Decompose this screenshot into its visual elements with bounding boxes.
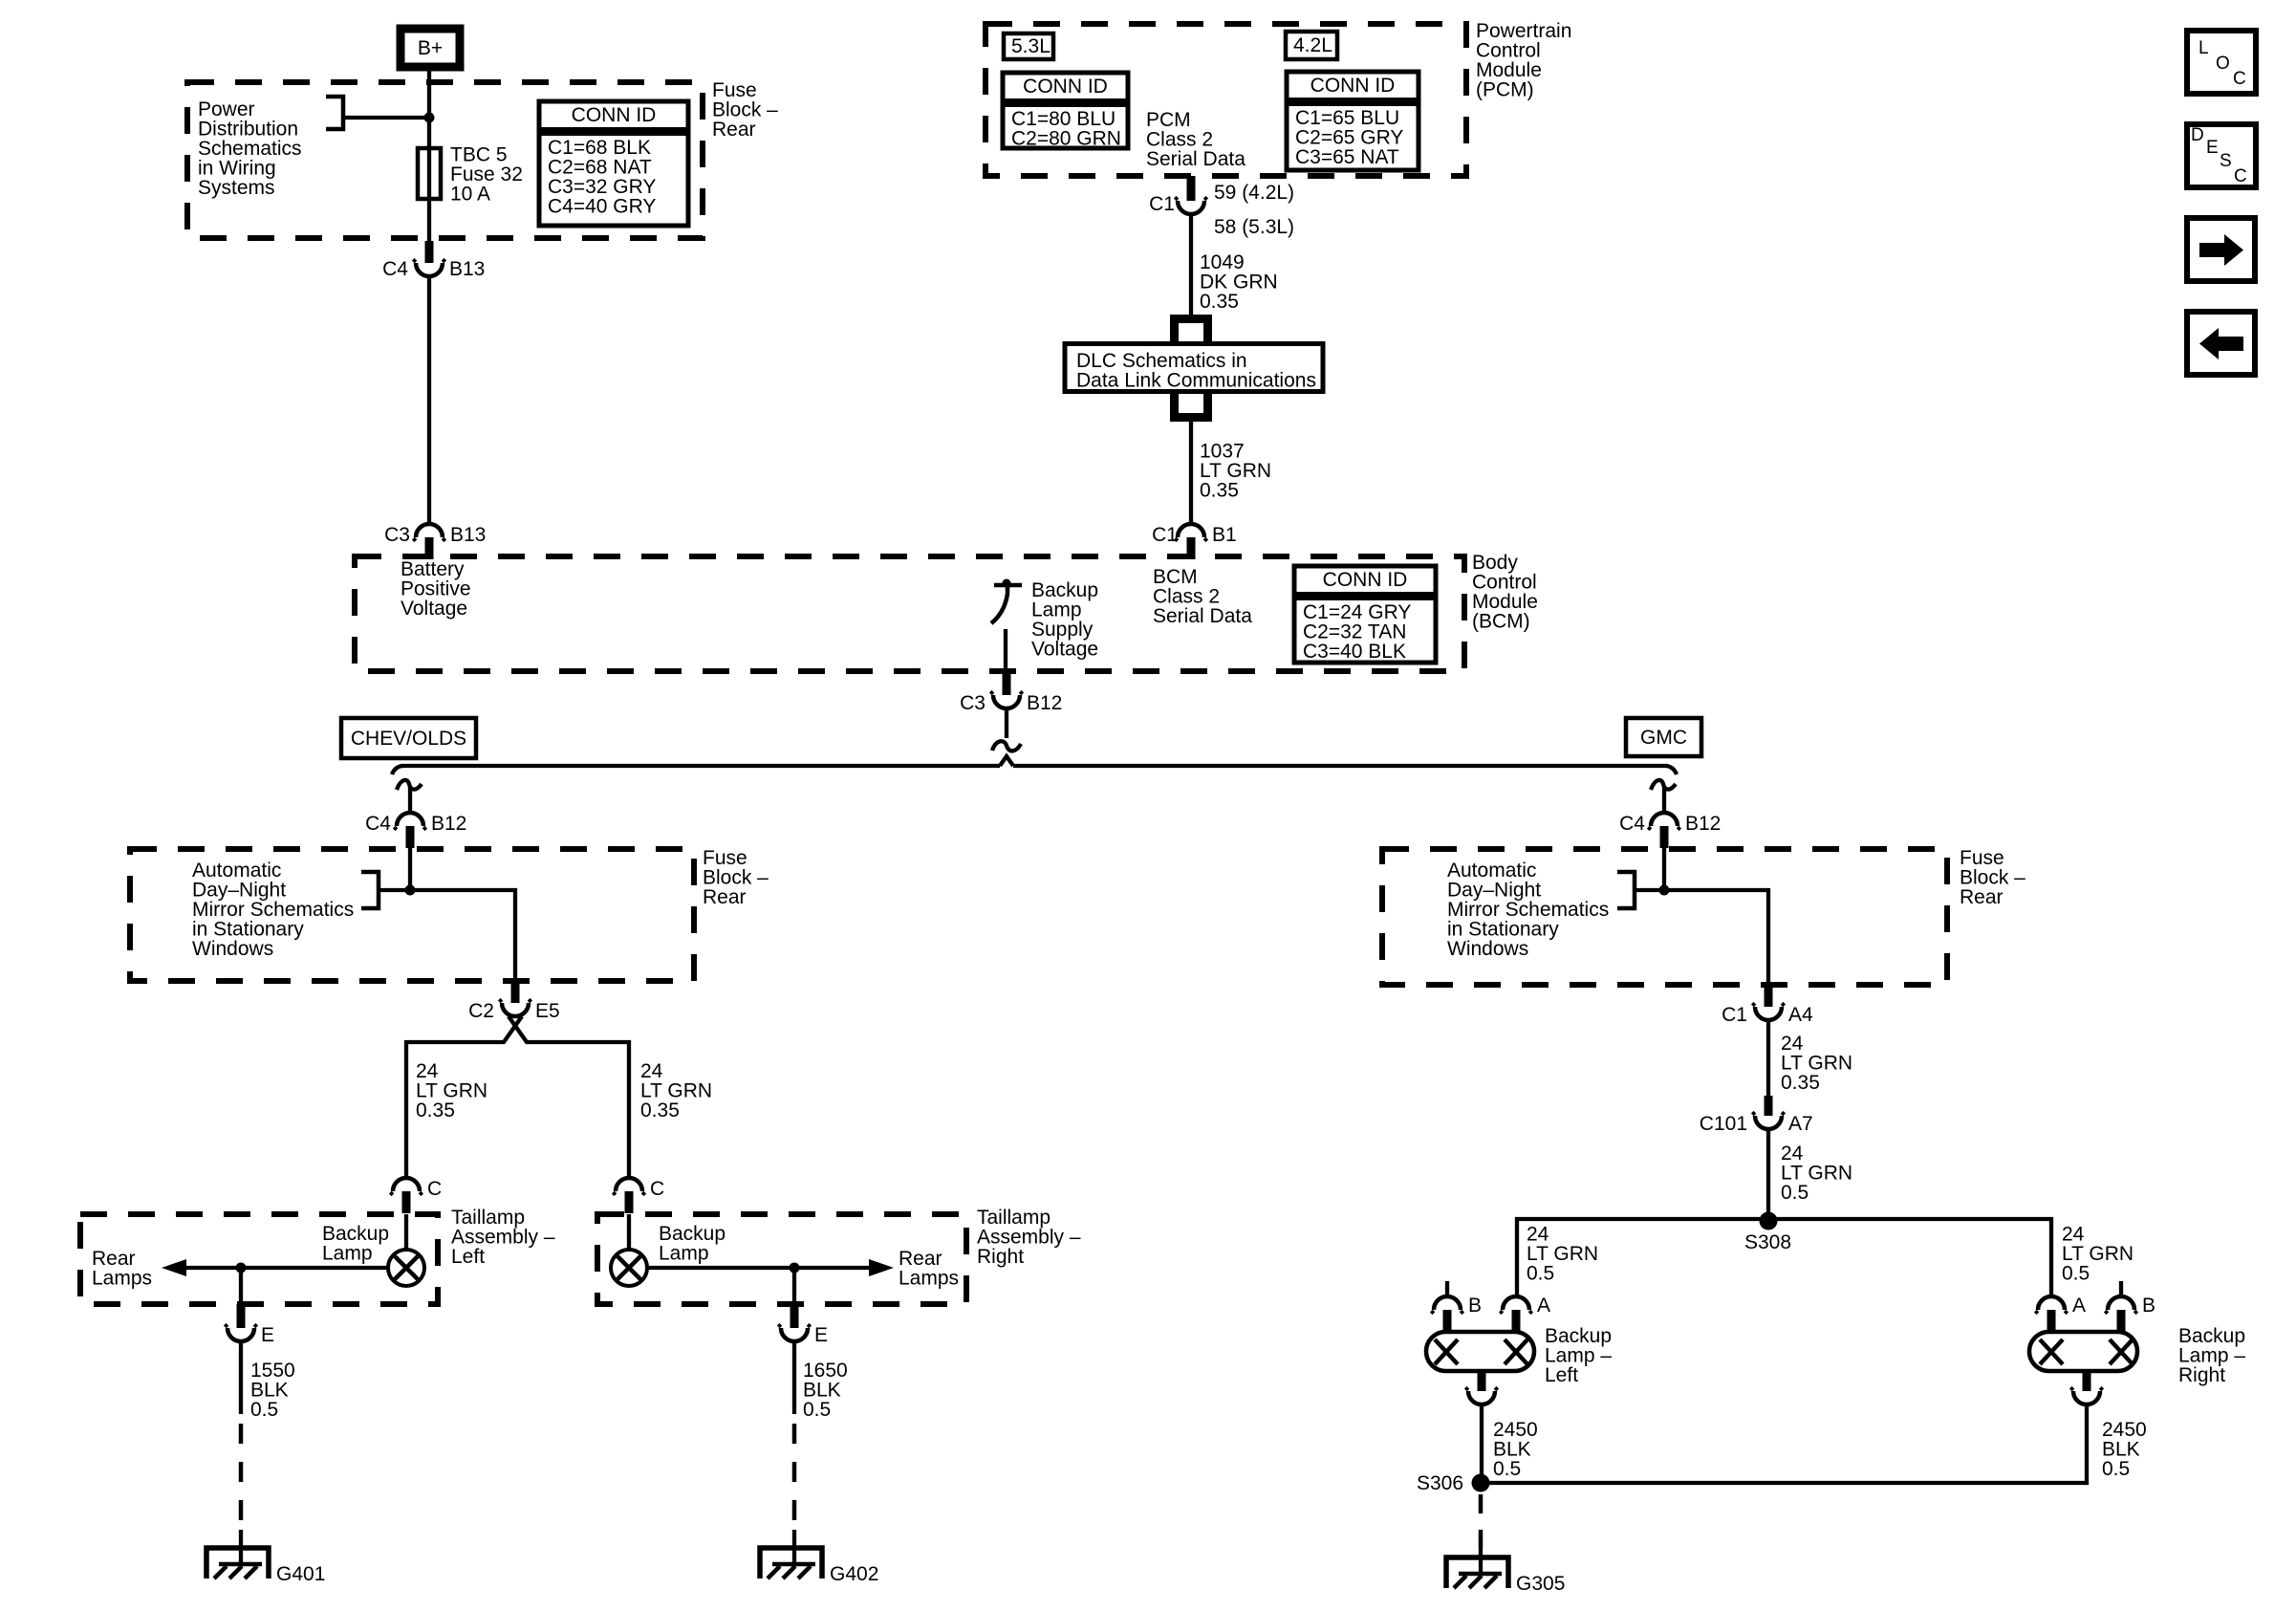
label 24 LT GRN 0.35 (left lamp) [416,1060,487,1121]
CONN ID table fuse block rear [539,101,688,226]
label TBC 5 Fuse 32 10 A [450,144,523,206]
label Body Control Module (BCM) [1472,552,1538,633]
svg-text:Rear: Rear [1960,886,2004,908]
svg-text:B12: B12 [1027,692,1062,714]
wire 1650 solid [792,1341,796,1414]
label BCM Class 2 Serial Data [1153,566,1252,627]
icon LOC [2187,31,2256,94]
label Fuse Block Rear (GMC) [1960,847,2025,908]
label 24 LT GRN 0.35 (GMC) [1781,1033,1852,1094]
label 1650 BLK 0.5 [803,1360,848,1421]
connector C101-A7 cup [1755,1116,1782,1129]
arrow to rear lamps (left) [162,1259,186,1276]
wire DLC to BCM [1189,422,1193,524]
svg-text:0.5: 0.5 [1527,1263,1554,1285]
node junction GMC fuse block [1659,885,1670,896]
svg-text:CONN ID: CONN ID [572,104,657,126]
wire split crossover right [509,1016,629,1178]
wire junction to E connector [239,1268,243,1304]
dashed box: Body Control Module BCM [355,556,1464,671]
svg-text:0.5: 0.5 [1781,1182,1809,1204]
wire curl to C4-B12 (GMC) [1662,787,1666,813]
svg-text:Systems: Systems [198,177,275,199]
connector C1-A4 cup [1755,1007,1782,1020]
wire 1550 dashed to ground [239,1424,244,1530]
connector pin A right lamp cap [2038,1296,2065,1310]
label 1550 BLK 0.5 [250,1360,295,1421]
connector C right cap [616,1178,642,1191]
svg-text:Lamp: Lamp [659,1243,709,1265]
svg-text:Voltage: Voltage [1031,639,1098,661]
svg-text:Lamps: Lamps [92,1268,152,1290]
splice S308 dot [1760,1212,1778,1230]
connector bottom pin right lamp pin stub [2083,1371,2091,1391]
svg-text:B+: B+ [418,37,443,59]
svg-text:A: A [1537,1295,1550,1317]
connector E right cup [781,1328,808,1341]
connector C2-E5 cup [502,1003,529,1016]
label Backup Lamp (left) [322,1223,389,1265]
node junction left taillamp [236,1263,247,1274]
wire lamp to rear lamps arrow [184,1266,388,1270]
pigtail stub pin B left lamp [1445,1281,1449,1296]
label Taillamp Assembly - Right [977,1207,1081,1268]
connector C4-B12 CHEV pin stub [406,826,415,848]
bracket mirror note (GMC) [1617,872,1635,908]
connector pin B right lamp cap [2108,1296,2134,1310]
wire 1550 solid [239,1341,243,1414]
svg-text:C2: C2 [468,1000,494,1022]
connector C4-B13 pin stub [425,241,434,263]
wire split crossover left [406,1016,522,1178]
svg-text:0.35: 0.35 [416,1099,455,1121]
svg-text:0.5: 0.5 [2102,1458,2130,1480]
backup lamp left GMC (dual bulb) [1426,1332,1534,1371]
connector C1-B1 pin stub [1187,537,1196,559]
svg-text:Left: Left [1545,1364,1578,1386]
svg-text:0.5: 0.5 [1493,1458,1521,1480]
svg-text:CONN ID: CONN ID [1323,569,1408,591]
label Automatic Day-Night Mirror (GMC) [1447,860,1609,960]
svg-text:B: B [2142,1295,2155,1317]
arrow to rear lamps (right) [869,1259,894,1276]
wire C4-B12 into fuse block (CHEV) [408,847,412,890]
wire end curl above brace [992,741,1021,751]
wire C into left backup lamp [404,1214,408,1251]
wire A7 to S308 [1766,1129,1770,1221]
label Backup Lamp (right) [659,1223,726,1265]
connector bottom pin right lamp cup [2073,1391,2100,1404]
wire into G402 [792,1530,796,1565]
label 24 LT GRN 0.35 (right lamp) [640,1060,712,1121]
svg-text:10 A: 10 A [450,184,490,206]
connector C4-B12 GMC cap [1651,813,1678,826]
ground G402 [760,1548,822,1578]
wire switch to C3-B12 [1004,629,1007,672]
switch backup lamp output inside BCM [991,579,1022,624]
wire S306 dashed to G305 [1479,1494,1484,1554]
svg-text:CONN ID: CONN ID [1310,75,1396,97]
dashed box: Taillamp Assembly Right [597,1214,966,1304]
svg-text:B13: B13 [449,258,485,280]
dashed box: Fuse Block Rear CHEV [130,849,694,981]
connector C left cap [393,1178,420,1191]
svg-text:C3: C3 [960,692,986,714]
svg-text:C1: C1 [1149,193,1175,215]
CHEV/OLDS variant box [341,718,476,758]
connector C1 PCM cup [1178,201,1204,214]
svg-text:L: L [2199,38,2209,58]
svg-text:E: E [814,1324,828,1346]
svg-text:B1: B1 [1212,524,1237,546]
connector C3-B13 pin stub [425,537,434,559]
splice S308 wire [1517,1219,2051,1296]
svg-text:S: S [2220,151,2232,171]
wire A4 to C101 [1766,1020,1770,1096]
svg-text:G402: G402 [830,1563,878,1585]
splice S306 dot [1472,1474,1490,1492]
label Battery Positive Voltage [401,558,471,620]
connector E left pin stub [237,1304,246,1328]
connector pin B left lamp cap [1434,1296,1461,1310]
svg-text:C: C [2233,69,2246,89]
connector C3-B12 pin stub [1003,672,1011,695]
connector C3-B13 cap [416,524,443,537]
svg-text:0.5: 0.5 [2062,1263,2090,1285]
connector C4-B13 cup [416,263,443,276]
label 2450 BLK 0.5 (left) [1493,1419,1538,1480]
svg-text:E5: E5 [535,1000,560,1022]
svg-text:G305: G305 [1516,1573,1565,1595]
svg-text:C: C [2234,166,2247,186]
connector pin B left lamp pin stub [1443,1310,1452,1332]
CONN ID table 5.3L [1003,73,1128,150]
svg-text:Rear: Rear [703,886,747,908]
wire lamp to rear lamps arrow (right) [647,1266,871,1270]
connector C1-B1 cap [1178,524,1204,537]
wire into G401 [239,1530,243,1565]
svg-text:C: C [650,1178,664,1200]
svg-text:C: C [427,1178,442,1200]
dashed box: Power Distribution fuse block rear [187,82,703,238]
icon arrow back [2187,312,2255,375]
node junction CHEV fuse block [405,885,416,896]
dashed box: Taillamp Assembly Left [80,1214,438,1304]
fuse TBC 5 Fuse 32 10A [418,148,441,241]
dashed box: Fuse Block Rear GMC [1382,849,1947,985]
svg-text:C3=40 BLK: C3=40 BLK [1303,641,1406,663]
svg-text:0.35: 0.35 [1200,291,1239,313]
label 24 LT GRN 0.5 (S308 right) [2062,1224,2134,1285]
wire B+ to fuse block [427,71,431,148]
svg-text:Data Link Communications: Data Link Communications [1076,370,1316,392]
wire C4-B12 into fuse block (GMC) [1662,847,1666,890]
svg-text:Serial Data: Serial Data [1153,605,1252,627]
icon arrow next [2187,218,2255,281]
svg-text:CHEV/OLDS: CHEV/OLDS [351,728,466,750]
svg-text:C2=80 GRN: C2=80 GRN [1011,128,1121,150]
svg-text:C4: C4 [1619,813,1645,835]
svg-text:Lamps: Lamps [899,1268,959,1290]
svg-text:C4: C4 [365,813,391,835]
label Power Distribution Schematics in Wiring Systems [198,98,302,199]
brace split wire CHEV/GMC [392,756,1677,774]
svg-text:Rear: Rear [712,119,756,141]
connector C4-B12 CHEV cap [397,813,423,826]
svg-text:S306: S306 [1417,1472,1463,1494]
5.3L tag box [1004,33,1053,59]
svg-text:C101: C101 [1700,1113,1747,1135]
svg-text:4.2L: 4.2L [1293,34,1332,56]
label Fuse Block Rear (top) [712,79,778,141]
label Powertrain Control Module (PCM) [1476,20,1571,101]
svg-text:59 (4.2L): 59 (4.2L) [1214,182,1294,204]
svg-text:C4=40 GRY: C4=40 GRY [548,196,656,218]
connector pin A left lamp pin stub [1512,1310,1521,1332]
wire bracket to node (CHEV) [379,888,410,892]
wire node to C1 drop (GMC) [1664,890,1768,985]
connector E left cup [227,1328,254,1341]
svg-text:C3=65 NAT: C3=65 NAT [1295,146,1399,168]
svg-text:0.35: 0.35 [1200,480,1239,502]
label Backup Lamp - Right [2178,1325,2245,1386]
svg-text:0.5: 0.5 [250,1399,278,1421]
label 1049 DK GRN 0.35 [1200,251,1278,313]
wire C4-B13 to C3-B13 [427,276,431,524]
wire curl to C4-B12 (CHEV) [408,787,412,813]
connector pin A right lamp pin stub [2047,1310,2056,1332]
svg-text:S308: S308 [1744,1231,1791,1253]
connector C101-A7 pin stub [1765,1096,1773,1116]
connector C1 PCM pin stub [1187,176,1196,201]
CHEV branch pigtail curl [397,780,422,790]
icon DESC [2187,124,2256,187]
svg-text:Left: Left [451,1246,485,1268]
terminal post out of DLC box [1170,393,1212,422]
connector C4-B12 GMC pin stub [1660,826,1669,848]
svg-text:58 (5.3L): 58 (5.3L) [1214,216,1294,238]
dashed box: Powertrain Control Module PCM [986,24,1466,176]
GMC variant box [1626,718,1701,756]
connector C3-B12 cup [993,695,1020,708]
GMC branch pigtail curl [1651,780,1676,790]
label 24 LT GRN 0.5 (S308 left) [1527,1224,1598,1285]
wire into G305 [1479,1549,1483,1575]
label Rear Lamps (right) [899,1248,959,1290]
svg-text:Serial Data: Serial Data [1146,148,1245,170]
label Backup Lamp Supply Voltage [1031,579,1098,661]
splice S306 wire [1482,1404,2087,1483]
wire 1650 dashed to ground [792,1424,797,1530]
svg-text:A4: A4 [1788,1004,1813,1026]
svg-text:C1: C1 [1152,524,1178,546]
label Rear Lamps (left) [92,1248,152,1290]
CONN ID table 4.2L [1287,72,1419,170]
svg-text:A: A [2072,1295,2086,1317]
node junction right taillamp [790,1263,800,1274]
svg-text:B12: B12 [1685,813,1721,835]
svg-text:Windows: Windows [1447,938,1528,960]
wire bracket to node (GMC) [1635,888,1664,892]
connector bottom pin left lamp cup [1468,1391,1495,1404]
svg-text:Voltage: Voltage [401,598,467,620]
svg-text:0.35: 0.35 [1781,1072,1820,1094]
bracket mirror note (CHEV) [361,872,379,908]
svg-text:E: E [2206,138,2219,158]
label PCM Class 2 Serial Data [1146,109,1245,170]
svg-text:C3: C3 [384,524,410,546]
label Backup Lamp - Left [1545,1325,1612,1386]
terminal post into DLC box [1170,315,1212,343]
ground G305 [1446,1557,1508,1588]
svg-text:G401: G401 [276,1563,325,1585]
svg-text:Windows: Windows [192,938,273,960]
svg-text:B13: B13 [450,524,486,546]
label 2450 BLK 0.5 (right) [2102,1419,2147,1480]
4.2L tag box [1286,32,1337,59]
backup lamp left (circle X) [388,1250,424,1286]
svg-text:(PCM): (PCM) [1476,79,1534,101]
connector C left pin stub [402,1191,411,1213]
svg-text:C1: C1 [1722,1004,1747,1026]
ground G401 [206,1548,269,1578]
connector E right pin stub [791,1304,799,1328]
backup lamp right GMC (dual bulb) [2029,1332,2137,1371]
label 1037 LT GRN 0.35 [1200,441,1271,502]
wire bracket to node [343,116,429,120]
svg-text:D: D [2191,125,2204,145]
svg-text:Right: Right [2178,1364,2225,1386]
svg-text:GMC: GMC [1640,727,1687,749]
B+ battery feed box [401,29,460,67]
svg-text:O: O [2216,54,2230,74]
wire PCM to DLC [1189,214,1193,318]
wire C into right backup lamp [627,1214,631,1251]
wire node to C2 drop (CHEV) [410,890,515,981]
node junction at B+ feed [424,113,435,123]
svg-text:0.5: 0.5 [803,1399,831,1421]
svg-text:0.35: 0.35 [640,1099,680,1121]
label Automatic Day-Night Mirror (CHEV) [192,860,354,960]
svg-text:Lamp: Lamp [322,1243,373,1265]
wire C3-B12 down to split [1005,708,1008,738]
svg-text:E: E [261,1324,274,1346]
wire junction to E connector (right) [792,1268,796,1304]
bracket from Power Distribution note [326,97,343,129]
svg-text:A7: A7 [1788,1113,1813,1135]
DLC Schematics box [1065,344,1323,392]
pigtail stub pin B right lamp [2119,1281,2123,1296]
label Taillamp Assembly - Left [451,1207,555,1268]
connector C1-A4 pin stub [1765,985,1773,1007]
connector C right pin stub [625,1191,634,1213]
label Fuse Block Rear (CHEV) [703,847,769,908]
svg-text:C4: C4 [382,258,408,280]
connector C2-E5 pin stub [511,981,520,1003]
svg-text:CONN ID: CONN ID [1023,76,1108,98]
connector pin B right lamp pin stub [2117,1310,2126,1332]
connector bottom pin left lamp pin stub [1478,1371,1486,1391]
wire left lamp to S306 [1480,1404,1484,1483]
svg-text:B: B [1468,1295,1482,1317]
backup lamp right (circle X) [611,1250,647,1286]
svg-text:(BCM): (BCM) [1472,611,1530,633]
svg-text:Right: Right [977,1246,1024,1268]
svg-text:5.3L: 5.3L [1011,35,1051,57]
CONN ID table BCM [1294,566,1436,663]
connector pin A left lamp cap [1503,1296,1529,1310]
label 24 LT GRN 0.5 (GMC) [1781,1143,1852,1204]
svg-text:B12: B12 [431,813,466,835]
